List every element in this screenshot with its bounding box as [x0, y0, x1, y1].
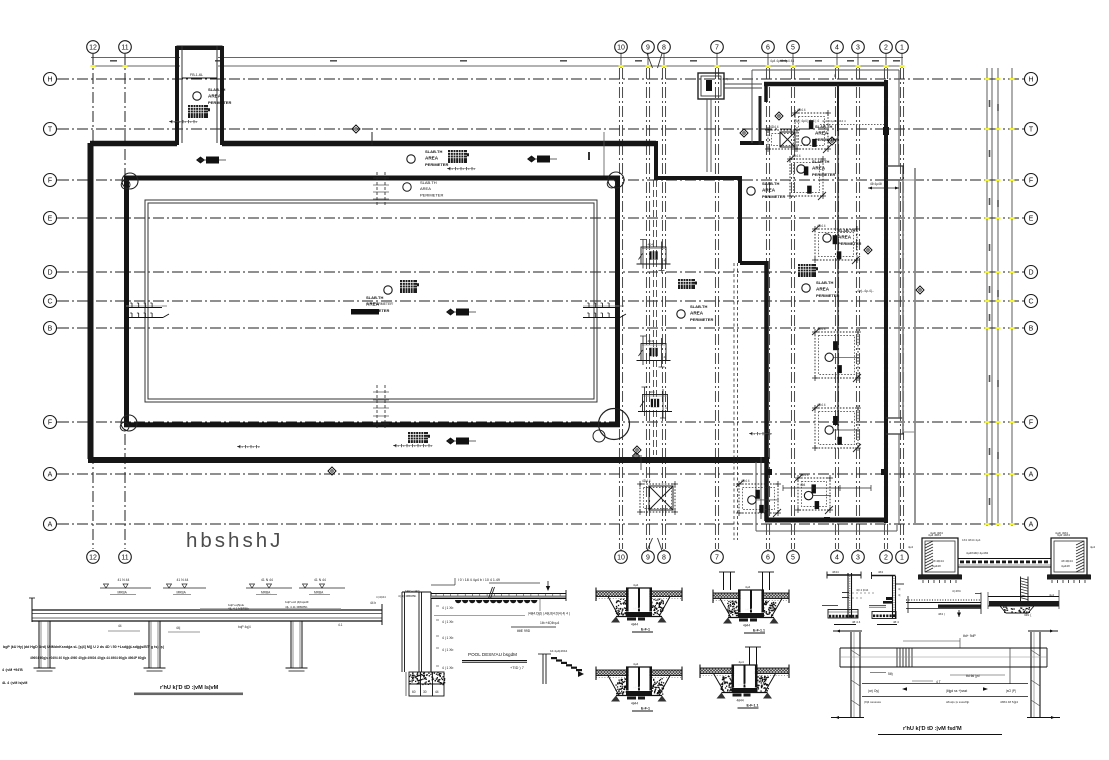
svg-text:POOL DESN'AU bsgdM: POOL DESN'AU bsgdM — [468, 652, 517, 657]
svg-text:B: B — [1029, 325, 1034, 332]
svg-text:4.1: 4.1 — [338, 623, 343, 627]
svg-text:10: 10 — [617, 554, 625, 561]
svg-text:12: 12 — [89, 554, 97, 561]
svg-text:r'hU k|'D tD :|vM fsd'M: r'hU k|'D tD :|vM fsd'M — [903, 726, 962, 732]
svg-text:E-F-1: E-F-1 — [641, 628, 650, 632]
svg-text:F: F — [48, 419, 52, 426]
svg-text:4θ44: 4θ44 — [832, 570, 839, 574]
svg-text:|sO |P|: |sO |P| — [1006, 689, 1016, 693]
svg-text:5: 5 — [791, 554, 795, 561]
svg-text:--4ϝτϳ--4μ-4|--: --4ϝτϳ--4μ-4|-- — [855, 289, 874, 293]
svg-text:AREA: AREA — [420, 186, 431, 191]
svg-text:4θ4: 4θ4 — [878, 570, 883, 574]
svg-text:4 | 1 Xb: 4 | 1 Xb — [442, 648, 453, 652]
svg-text:30: 30 — [423, 690, 427, 694]
svg-text:9: 9 — [646, 554, 650, 561]
svg-text:4Ḑ4 4: 4Ḑ4 4 — [642, 479, 651, 483]
svg-text:E-F-1.1: E-F-1.1 — [747, 704, 759, 708]
svg-text:4θ 4Ḑ44: 4θ 4Ḑ44 — [932, 559, 944, 563]
svg-text:T: T — [48, 126, 53, 133]
svg-text:4θ4: 4θ4 — [800, 483, 806, 487]
svg-text:bgP |kU Hy| |dd HgD 4>d| UdMdn: bgP |kU Hy| |dd HgD 4>d| UdMdnKsndģa sL … — [3, 644, 164, 649]
svg-text:|θ|gd ss +)ssst: |θ|gd ss +)ssst — [946, 689, 967, 693]
svg-text:PERIMETER: PERIMETER — [208, 100, 231, 105]
svg-text:4| 4|| MBRBb: 4| 4|| MBRBb — [398, 594, 417, 598]
svg-text:2: 2 — [884, 44, 888, 51]
svg-text:F: F — [48, 177, 52, 184]
svg-text:4μ4θ44Ḑ 4μ4θ4: 4μ4θ44Ḑ 4μ4θ4 — [966, 551, 988, 555]
svg-text:E-F-1.1: E-F-1.1 — [753, 629, 765, 633]
svg-text:θd θd |γd: θd θd |γd — [966, 674, 980, 678]
svg-text:6: 6 — [766, 554, 770, 561]
svg-text:44|: 44| — [176, 626, 181, 630]
svg-text:A: A — [1029, 471, 1034, 478]
svg-text:6: 6 — [766, 44, 770, 51]
svg-text:F: F — [1029, 419, 1033, 426]
svg-text:4|L 4.11 MBRBb: 4|L 4.11 MBRBb — [285, 605, 308, 609]
svg-text:4Ḑ4 4: 4Ḑ4 4 — [770, 125, 779, 129]
svg-text:4μ4.Ḑ4μ4 4Ḑ44 4: 4μ4.Ḑ4μ4 4Ḑ44 4 — [822, 119, 846, 123]
svg-text:49604 60g|s 40494 40 6g: 49604 60g|s 40494 40 6g|s 4960 40g|b 496… — [30, 656, 146, 660]
svg-text:4Ḑ4 4: 4Ḑ4 4 — [817, 224, 826, 228]
svg-text:41 N 44: 41 N 44 — [118, 578, 130, 582]
svg-text:4μ4: 4μ4 — [745, 585, 751, 589]
svg-text:PERIMETER: PERIMETER — [425, 162, 448, 167]
svg-text:** ** 'PERMETER': ** ** 'PERMETER' — [366, 302, 394, 306]
svg-text:4θ44: 4θ44 — [631, 702, 638, 706]
svg-text:4 | 1 Xb: 4 | 1 Xb — [442, 620, 453, 624]
svg-text:AREA: AREA — [816, 287, 830, 292]
svg-text:4 |4Ḑ44: 4 |4Ḑ44 — [376, 595, 386, 599]
svg-text:41 N 44: 41 N 44 — [261, 578, 273, 582]
svg-text:4θ 4 4: 4θ 4 4 — [852, 620, 861, 624]
svg-text:T: T — [1029, 126, 1034, 133]
svg-text:bqP esll |4|bqsdF: bqP esll |4|bqsdF — [285, 600, 309, 604]
svg-text:PERIMETER: PERIMETER — [816, 293, 839, 298]
svg-text:AREA: AREA — [425, 156, 439, 161]
svg-text:SLAB.TH: SLAB.TH — [816, 280, 833, 285]
svg-text:4θ 4Ḑ44: 4θ 4Ḑ44 — [1061, 559, 1073, 563]
svg-text:44 b: 44 b — [370, 601, 376, 605]
svg-text:A: A — [1029, 521, 1034, 528]
svg-text:5: 5 — [791, 44, 795, 51]
svg-text:4μ4: 4μ4 — [739, 660, 745, 664]
svg-text:4Ḑ4 4: 4Ḑ4 4 — [817, 327, 826, 331]
svg-text:SLAB.TH: SLAB.TH — [690, 304, 707, 309]
svg-text:4θ44: 4θ44 — [631, 623, 638, 627]
svg-text:4Ḑ4 4: 4Ḑ4 4 — [800, 473, 809, 477]
svg-text:4μ4| |4θ4: 4μ4| |4θ4 — [930, 531, 943, 535]
svg-text:12: 12 — [89, 44, 97, 51]
svg-text:H: H — [47, 76, 52, 83]
svg-text:θd+ 9dP: θd+ 9dP — [963, 634, 976, 638]
svg-text:b4Ḑ4: b4Ḑ4 — [633, 607, 641, 611]
svg-text:(θ|4 sssssss: (θ|4 sssssss — [864, 700, 881, 704]
svg-text:A: A — [48, 521, 53, 528]
svg-text:4θ4 (: 4θ4 ( — [938, 612, 945, 616]
svg-text:H: H — [1028, 76, 1033, 83]
svg-text:44: 44 — [118, 624, 122, 628]
svg-text:4 | 1 Xb: 4 | 1 Xb — [442, 636, 453, 640]
svg-text:AREA: AREA — [690, 311, 704, 316]
svg-text:b4Ḑ4: b4Ḑ4 — [745, 608, 753, 612]
svg-text:hbshshJ: hbshshJ — [186, 529, 283, 552]
svg-text:4Ḑ4 4: 4Ḑ4 4 — [792, 154, 801, 158]
svg-text:A: A — [48, 471, 53, 478]
svg-text:60: 60 — [412, 690, 416, 694]
svg-text:4: 4 — [835, 554, 839, 561]
svg-text:4μ4: 4μ4 — [633, 662, 639, 666]
svg-text:4θ 4: 4θ 4 — [893, 620, 899, 624]
svg-text:r'hU k|'D tD :|vM ls|vM: r'hU k|'D tD :|vM ls|vM — [160, 685, 219, 691]
svg-text:4| 4θ4: 4| 4θ4 — [952, 589, 961, 593]
svg-text:4μ4: 4μ4 — [1090, 545, 1095, 549]
svg-text:C: C — [1028, 298, 1033, 305]
svg-text:4Ḑ4: 4Ḑ4 — [648, 243, 654, 247]
svg-text:8: 8 — [662, 44, 666, 51]
svg-text:b4 4μ4|4θ44: b4 4μ4|4θ44 — [550, 649, 567, 653]
svg-text:4Ḑ 4 Ḑ44: 4Ḑ 4 Ḑ44 — [856, 588, 869, 592]
svg-text:3: 3 — [856, 44, 860, 51]
svg-text:MRBA: MRBA — [177, 591, 187, 595]
svg-text:4L 4 :|vM ls|vM: 4L 4 :|vM ls|vM — [2, 681, 27, 685]
svg-text:4θθ4 4θ ħģ|4: 4θθ4 4θ ħģ|4 — [1000, 699, 1018, 704]
svg-text:B: B — [48, 325, 53, 332]
svg-text:4μ44θ: 4μ44θ — [1061, 564, 1070, 568]
svg-text:FB-1-6L: FB-1-6L — [190, 73, 203, 77]
svg-text:PERIMETER: PERIMETER — [420, 193, 443, 198]
svg-text:10: 10 — [617, 44, 625, 51]
svg-text:1: 1 — [900, 44, 904, 51]
svg-text:SLAB.TH: SLAB.TH — [812, 159, 829, 164]
svg-text:AREA: AREA — [208, 94, 222, 99]
svg-text:SLAB.TH: SLAB.TH — [425, 149, 442, 154]
svg-text:4μ | 4μ4 | 4μ4 | 4: 4μ | 4μ4 | 4μ4 | 4 — [795, 119, 819, 123]
svg-text:41 N 44: 41 N 44 — [177, 578, 189, 582]
svg-text:4θ44: 4θ44 — [743, 624, 750, 628]
svg-text:4Ḑ4: 4Ḑ4 — [649, 390, 655, 394]
svg-text:41 N 44: 41 N 44 — [314, 578, 326, 582]
svg-text:4θ1 (: 4θ1 ( — [1024, 613, 1032, 617]
svg-text:4θ 4μ4θ: 4θ 4μ4θ — [870, 182, 882, 186]
svg-text:9: 9 — [646, 44, 650, 51]
svg-text:C: C — [47, 298, 52, 305]
svg-text:4: 4 — [835, 44, 839, 51]
svg-text:MRBA: MRBA — [261, 591, 271, 595]
svg-text:4Ḑ4 4: 4Ḑ4 4 — [797, 108, 806, 112]
svg-text:SLAB.TH: SLAB.TH — [366, 295, 383, 300]
svg-text:4 :|vM +94'B: 4 :|vM +94'B — [2, 668, 23, 672]
svg-text:4μ4: 4μ4 — [1049, 593, 1054, 597]
svg-text:D: D — [1028, 269, 1033, 276]
svg-text:4μ4| |4θ4: 4μ4| |4θ4 — [1055, 531, 1068, 535]
svg-text:4 | 1 Xb: 4 | 1 Xb — [442, 606, 453, 610]
svg-text:4Ḑ4 4: 4Ḑ4 4 — [741, 479, 750, 483]
svg-text:+TID ) 7: +TID ) 7 — [510, 666, 524, 670]
svg-text:b4Ḑ4: b4Ḑ4 — [633, 686, 641, 690]
svg-text:F: F — [1029, 177, 1033, 184]
svg-text:AREA: AREA — [762, 188, 776, 193]
svg-text:SLAB.TH: SLAB.TH — [762, 181, 779, 186]
svg-text:4|L 4.1 MBRBb: 4|L 4.1 MBRBb — [228, 607, 249, 611]
svg-text:4θ44: 4θ44 — [737, 699, 744, 703]
svg-text:7: 7 — [715, 44, 719, 51]
svg-text:3: 3 — [856, 554, 860, 561]
svg-text:E-F-1: E-F-1 — [641, 707, 650, 711]
svg-text:SLAB.TH: SLAB.TH — [208, 87, 225, 92]
svg-text:sθss|s |s ssssθ|p: sθss|s |s ssssθ|p — [946, 700, 969, 704]
svg-text:PERIMETER: PERIMETER — [838, 241, 861, 246]
svg-text:MRBA: MRBA — [314, 591, 324, 595]
svg-text:4Ḑ4: 4Ḑ4 — [648, 339, 654, 343]
svg-text:l 0 \ 18 4 4μ4 b \ 10 4: l 0 \ 18 4 4μ4 b \ 10 4 1.49 — [458, 578, 500, 582]
svg-text:4 | 1 Xb: 4 | 1 Xb — [442, 666, 453, 670]
svg-text:4μ4: 4μ4 — [908, 545, 913, 549]
svg-text:1θ=+4Ḑθ=μ4: 1θ=+4Ḑθ=μ4 — [540, 621, 559, 625]
svg-text:|ıσ) Oy|: |ıσ) Oy| — [868, 689, 879, 693]
svg-text:|4θ|4.Ḑ|β| |,4θ|,8|4.Ḑ|4| 4|: |4θ|4.Ḑ|β| |,4θ|,8|4.Ḑ|4| 4| 4 ( — [528, 612, 571, 616]
svg-text:4μ4 4μ44 4μ4 44: 4μ4 4μ44 4μ4 44 — [770, 59, 794, 63]
svg-text:AREA: AREA — [812, 166, 826, 171]
svg-text:11: 11 — [121, 554, 128, 561]
svg-text:11: 11 — [121, 44, 128, 51]
svg-text:θθΕ 99D: θθΕ 99D — [517, 629, 531, 633]
svg-text:4Ḑ4 4: 4Ḑ4 4 — [817, 403, 826, 407]
svg-text:AREA: AREA — [815, 131, 829, 136]
svg-text:4|: 4| — [898, 593, 901, 597]
svg-text:7: 7 — [715, 554, 719, 561]
svg-text:4μ4: 4μ4 — [633, 583, 639, 587]
svg-text:E: E — [48, 215, 53, 222]
svg-text:5θ): 5θ) — [888, 672, 893, 676]
svg-text:44: 44 — [435, 690, 439, 694]
svg-text:4|: 4| — [898, 587, 901, 591]
svg-text:PERIMETER: PERIMETER — [812, 172, 835, 177]
svg-text:PERIMETER: PERIMETER — [690, 317, 713, 322]
svg-text:8: 8 — [662, 554, 666, 561]
svg-text:1: 1 — [900, 554, 904, 561]
svg-text:b4Ḑ4: b4Ḑ4 — [739, 683, 747, 687]
svg-text:4μ44θ: 4μ44θ — [932, 564, 941, 568]
svg-text:SLAB.TH: SLAB.TH — [420, 180, 437, 185]
svg-text:E: E — [1029, 215, 1034, 222]
svg-text:1θ4 4θ44 4μ4: 1θ4 4θ44 4μ4 — [962, 538, 981, 542]
svg-text:MRBA: MRBA — [118, 591, 128, 595]
svg-text:2: 2 — [884, 554, 888, 561]
svg-text:bqP 4q|4: bqP 4q|4 — [238, 625, 251, 629]
svg-text:PERIMETER: PERIMETER — [762, 194, 785, 199]
svg-text:D: D — [47, 269, 52, 276]
svg-text:AREA: AREA — [838, 235, 852, 240]
